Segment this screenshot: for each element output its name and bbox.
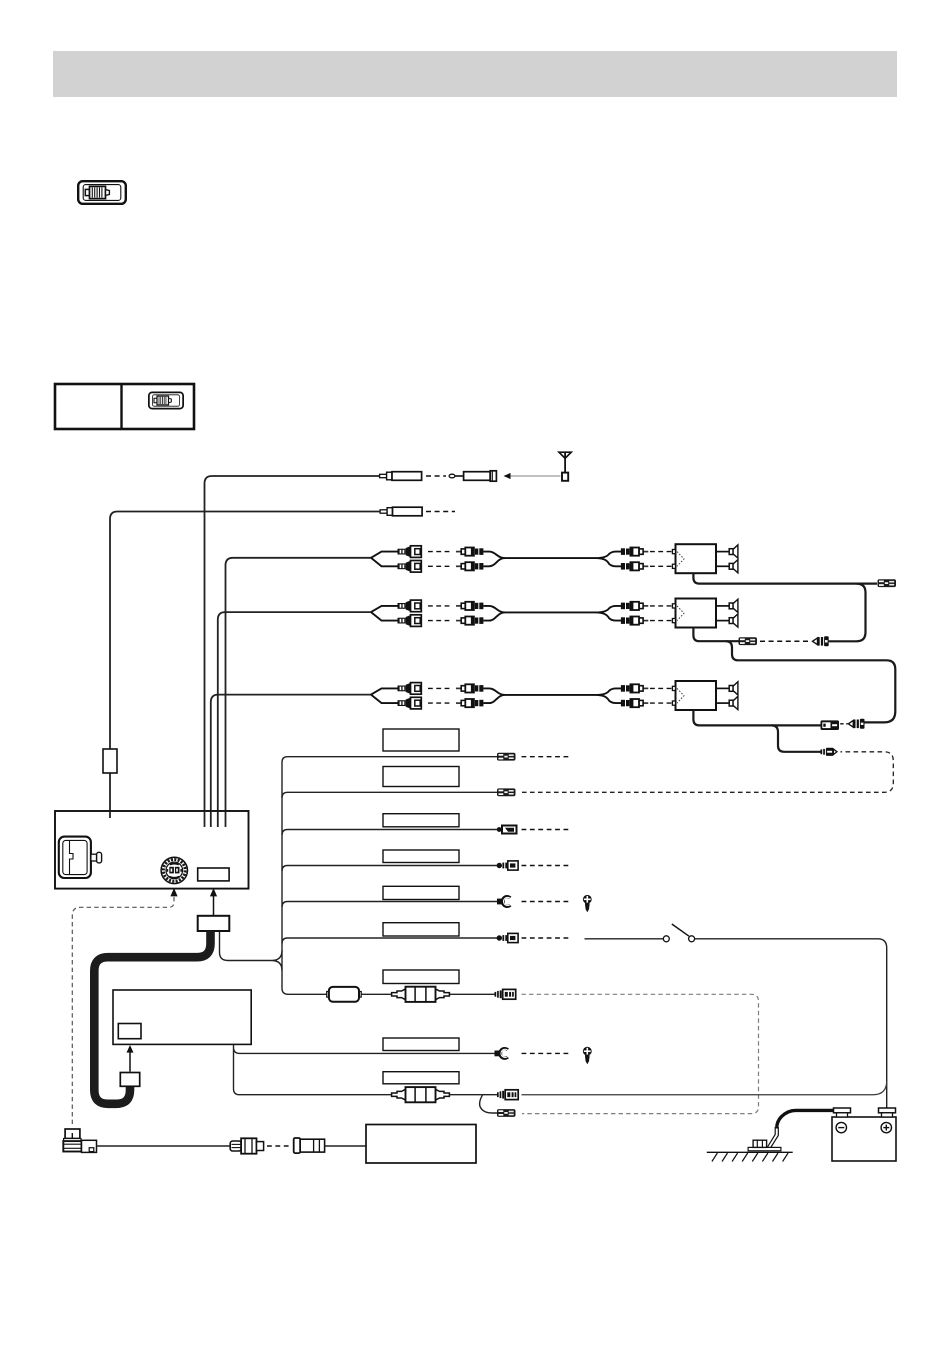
mating dashes A2-B2 xyxy=(760,640,810,642)
amp2 power wire to connector A2 xyxy=(693,628,739,642)
compatibility table box xyxy=(55,384,194,429)
wire label box row 7 xyxy=(383,970,459,984)
battery minus cable xyxy=(777,1110,836,1128)
amp mating dashes row 1 xyxy=(650,551,672,553)
harness wire row 6 xyxy=(288,937,498,939)
gray wire row 10A to battery xyxy=(522,1081,887,1095)
connector A3 xyxy=(821,720,840,730)
RCA mating dashes row 1 xyxy=(428,551,450,553)
harness wire row 3 xyxy=(288,829,498,831)
terminal row 10B xyxy=(497,1109,516,1117)
wire label box row 8 xyxy=(383,1038,459,1051)
fuse capsule row 7 xyxy=(392,987,450,1002)
power antenna mating dashes xyxy=(426,511,455,513)
RCA female jack row 1 upper xyxy=(398,546,422,558)
screw row 8 xyxy=(583,1047,592,1064)
bus fillet row 3 xyxy=(282,830,288,836)
wire switch to battery plus xyxy=(695,939,887,1108)
mating dashes A3-B3 xyxy=(840,723,848,725)
amp3 power wire to connector A3 xyxy=(693,710,821,725)
tuner right-angle plug xyxy=(63,1129,96,1152)
mating dashes row 6 xyxy=(522,937,571,939)
wire label box row 1 xyxy=(383,729,459,751)
power antenna lead ferrule xyxy=(380,507,422,516)
harness wire row 1 xyxy=(288,756,498,758)
amplifier U3 with speakers xyxy=(672,681,738,710)
fuse capsule row 9 xyxy=(392,1087,450,1102)
head unit display icon xyxy=(59,837,102,878)
arrow to antenna plug xyxy=(504,473,511,479)
switch on row 6 xyxy=(585,938,664,940)
mating dashes row 3 xyxy=(522,829,571,831)
RCA male plug row 2 upper xyxy=(456,602,483,610)
relay box row 7 xyxy=(327,987,362,1002)
RCA trunk wire row 1 xyxy=(226,558,372,827)
RCA male plug row 3 upper xyxy=(456,684,483,692)
RCA male plug to amp row 3 upper xyxy=(621,684,648,692)
amplifier U2 with speakers xyxy=(672,599,738,628)
tuner cable wire xyxy=(97,1145,231,1147)
amp1 power connector C1 xyxy=(878,579,897,587)
amp mating dashes row 3 xyxy=(650,687,672,689)
RCA male plug row 2 lower xyxy=(456,617,483,625)
bus fillet row 4 xyxy=(282,866,288,872)
arrow block to socket xyxy=(213,896,215,916)
mating dashes antenna xyxy=(426,475,446,477)
head unit chassis xyxy=(55,811,249,889)
mating dashes row 1 xyxy=(522,756,571,758)
connector B2 (to amp2) xyxy=(813,636,829,646)
harness wire row 4 xyxy=(288,865,498,867)
RCA male plug to amp row 1 lower xyxy=(621,562,648,570)
terminal row 2 xyxy=(497,788,516,796)
wire to tuner box xyxy=(325,1145,366,1147)
mating dashes row 5 xyxy=(522,901,571,903)
RCA mating dashes row 2 xyxy=(428,605,450,607)
RCA male plug to amp row 1 upper xyxy=(621,548,648,556)
head unit rear socket xyxy=(198,868,229,881)
RCA male plug to amp row 2 lower xyxy=(621,617,648,625)
verticals into head unit top xyxy=(204,811,206,827)
RCA cable converge row 1 xyxy=(483,552,596,567)
RCA female jack row 3 upper xyxy=(398,683,422,695)
RCA trunk wire row 3 xyxy=(211,695,371,827)
wire label box row 5 xyxy=(383,886,459,899)
wire label box row 6 xyxy=(383,923,459,936)
bus fillet row 5 xyxy=(282,902,288,908)
RCA trunk wire row 2 xyxy=(218,612,371,827)
RCA male plug row 3 lower xyxy=(456,699,483,707)
bus fillet row 6 xyxy=(282,938,288,944)
harness wire row 7 xyxy=(288,993,495,995)
amp mating dashes row 2 xyxy=(650,605,672,607)
bus fillet row 2 xyxy=(282,792,288,798)
connector icon badge top xyxy=(78,181,126,204)
RCA male plug to amp row 3 lower xyxy=(621,699,648,707)
terminal row 6 xyxy=(497,933,518,942)
RCA female jack row 1 lower xyxy=(398,561,422,573)
amp1 power wire to connector xyxy=(693,573,877,583)
wire label box row 4 xyxy=(383,850,459,863)
small socket in interface box xyxy=(118,1024,141,1039)
RCA Y-split left row 3 xyxy=(371,688,398,703)
RCA mating dashes row 3 xyxy=(428,687,450,689)
tuner mating dashes xyxy=(267,1145,291,1147)
terminal row 3 xyxy=(497,826,517,834)
gray dashed loop row7 to row10B xyxy=(522,994,759,1113)
wire label box row 9 xyxy=(383,1072,459,1084)
fuse on power antenna lead xyxy=(103,749,117,773)
tuner female barrel connector xyxy=(294,1138,325,1153)
terminal row 10A xyxy=(497,1090,518,1100)
RCA female jack row 2 lower xyxy=(398,615,422,627)
connector B3 (to amp3) xyxy=(848,719,864,729)
wire label box row 2 xyxy=(383,767,459,787)
RCA cable converge row 3 xyxy=(483,688,596,703)
feed wire from head unit block xyxy=(220,931,272,961)
antenna extension lead wire xyxy=(205,476,385,827)
tuner male barrel connector xyxy=(230,1138,263,1153)
terminal row 5 xyxy=(497,897,510,907)
terminal row 4 xyxy=(497,861,518,870)
RCA Y-split right row 1 xyxy=(596,552,622,567)
RCA male plug row 1 lower xyxy=(456,562,483,570)
ground plane xyxy=(707,1151,793,1153)
wire label box row 3 xyxy=(383,814,459,827)
harness wire row 5 xyxy=(288,901,498,903)
RCA Y-split right row 3 xyxy=(596,688,622,703)
harness bus vertical xyxy=(282,757,288,995)
arrow cable connector to display box xyxy=(129,1052,131,1072)
amp1 tee down to B2 xyxy=(829,584,866,642)
mating dashes row 8 xyxy=(522,1052,571,1054)
dashed link battery-lead to bullet xyxy=(522,752,893,793)
thick harness cable xyxy=(94,931,210,1104)
amp2 tee down chain to row3 xyxy=(726,641,896,722)
RCA Y-split left row 2 xyxy=(371,606,398,621)
terminal row 7 xyxy=(495,989,516,999)
screw row 5 xyxy=(583,895,592,912)
RCA female jack row 2 upper xyxy=(398,600,422,612)
RCA female jack row 3 lower xyxy=(398,697,422,709)
RCA male plug to amp row 2 upper xyxy=(621,602,648,610)
head unit DIN jack xyxy=(161,857,187,883)
RCA male plug row 1 upper xyxy=(456,548,483,556)
RCA Y-split right row 2 xyxy=(596,606,622,621)
harness wire row 9 xyxy=(240,1094,397,1096)
connector A2 xyxy=(739,637,758,645)
battery xyxy=(832,1108,896,1161)
feed junction curves xyxy=(272,951,283,971)
terminal row 1 xyxy=(497,753,516,761)
amplifier U1 with speakers xyxy=(672,544,738,573)
power antenna lead wire xyxy=(110,512,385,750)
header gray bar xyxy=(53,51,897,97)
harness connector block xyxy=(198,916,230,931)
tuner box xyxy=(366,1125,476,1164)
harness wire row 2 xyxy=(288,791,498,793)
display interface box xyxy=(113,990,251,1044)
dashed arrow DIN jack xyxy=(170,888,177,896)
battery chain bullet connector xyxy=(821,748,838,756)
antenna symbol xyxy=(559,452,571,481)
car antenna male plug xyxy=(449,471,496,481)
connector icon badge in table xyxy=(149,392,183,408)
wire from display box to rows 8/9 xyxy=(234,1007,495,1095)
amp3 tee down to battery bullet xyxy=(771,725,821,751)
mating dashes row 4 xyxy=(522,865,571,867)
ground bolt xyxy=(748,1140,781,1151)
fork to two terminals row 10 xyxy=(480,1095,497,1113)
ground strap xyxy=(767,1127,779,1150)
terminal row 8 fork xyxy=(495,1049,508,1059)
thick cable connector xyxy=(120,1073,139,1087)
antenna lead female ferrule xyxy=(380,472,422,481)
RCA Y-split left row 1 xyxy=(371,552,398,567)
RCA cable converge row 2 xyxy=(483,606,596,621)
